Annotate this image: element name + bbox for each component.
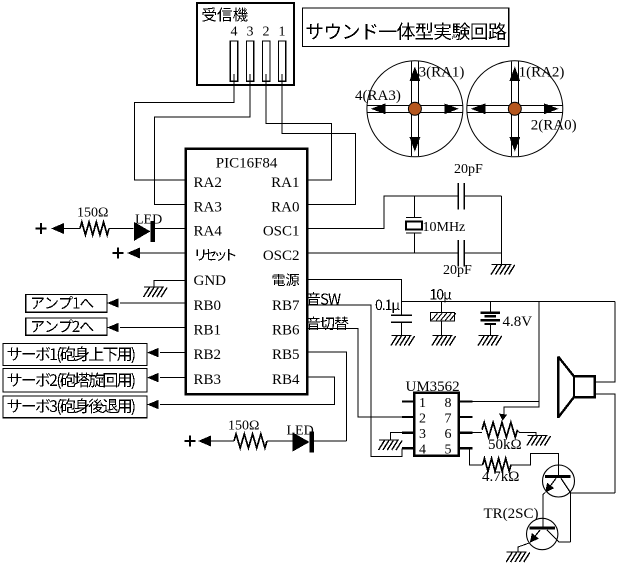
U2 pin 7 stub bbox=[459, 416, 473, 418]
U2 pin 3 stub bbox=[402, 432, 414, 434]
svg-text:3: 3 bbox=[419, 427, 426, 442]
svg-text:4.8V: 4.8V bbox=[503, 314, 533, 330]
svg-text:50kΩ: 50kΩ bbox=[488, 437, 522, 453]
power rail wire bbox=[402, 300, 615, 302]
ground battery bbox=[478, 336, 502, 346]
joystick left stick center knob bbox=[408, 102, 421, 115]
ground C4 bbox=[432, 336, 456, 346]
wire pot to ground bbox=[518, 431, 537, 435]
title text サウンド一体型実験回路 bbox=[306, 23, 506, 41]
joystick right stick arrow down bbox=[509, 137, 520, 152]
battery BT1 4.8V bbox=[489, 301, 491, 335]
joystick right stick cross channel bbox=[467, 61, 563, 156]
wire Q2 emitter to ground bbox=[518, 543, 530, 552]
wire U2 pin3 to ground bbox=[390, 433, 402, 440]
box サーボ2 bbox=[3, 368, 147, 392]
title box bbox=[302, 8, 508, 46]
arrow to + supply bbox=[127, 248, 140, 259]
potentiometer VR1 50k bbox=[472, 432, 482, 434]
wire RB3 to サーボ2 bbox=[160, 377, 186, 379]
wire speaker - to collectors bbox=[595, 394, 615, 493]
arrow into サーボ2 bbox=[147, 373, 159, 383]
wire RB2 to サーボ1 bbox=[160, 352, 186, 354]
wire RB0 to アンプ1 bbox=[120, 302, 186, 304]
svg-text:RA0: RA0 bbox=[271, 200, 299, 216]
svg-text:10MHz: 10MHz bbox=[423, 220, 466, 235]
ground Q2 emitter bbox=[506, 552, 530, 562]
label 音SW bbox=[307, 292, 341, 306]
joystick right stick arrow up bbox=[509, 67, 520, 82]
wire caps to ground bbox=[501, 196, 503, 265]
wire U2 pin5 to R3 bbox=[470, 448, 483, 465]
svg-text:3: 3 bbox=[247, 25, 254, 40]
arrow to + supply bbox=[51, 223, 64, 234]
svg-text:LED: LED bbox=[287, 424, 314, 439]
svg-text:3(RA1): 3(RA1) bbox=[419, 65, 465, 81]
ground oscillator bbox=[491, 265, 515, 275]
receiver label 受信機 bbox=[202, 7, 247, 21]
svg-text:RA4: RA4 bbox=[194, 224, 223, 240]
ground U2 pin3 bbox=[379, 440, 403, 450]
ground VR1 bbox=[527, 436, 551, 446]
box アンプ1へ bbox=[26, 295, 107, 313]
arrow into サーボ1 bbox=[147, 348, 159, 358]
wire receiver pin1 to PIC RA0 bbox=[282, 74, 356, 205]
wire Q1 emitter to Q2 base bbox=[543, 493, 545, 527]
svg-text:2(RA0): 2(RA0) bbox=[531, 118, 577, 134]
svg-text:1: 1 bbox=[419, 396, 426, 411]
svg-text:6: 6 bbox=[445, 427, 452, 442]
svg-text:RA2: RA2 bbox=[194, 175, 222, 191]
svg-text:OSC2: OSC2 bbox=[263, 248, 300, 264]
label サーボ2(砲塔旋回用) bbox=[8, 373, 135, 390]
svg-text:4: 4 bbox=[419, 443, 426, 458]
svg-text:150Ω: 150Ω bbox=[228, 419, 259, 434]
wire bbox=[64, 228, 80, 230]
node + supply for LED D1 bbox=[36, 223, 47, 234]
resistor R2 150ohm bbox=[234, 434, 267, 448]
wire bbox=[109, 228, 133, 230]
joystick right stick arrow left bbox=[471, 103, 486, 114]
svg-text:TR(2SC): TR(2SC) bbox=[484, 506, 539, 522]
arrow to + supply bbox=[198, 436, 211, 447]
capacitor C1 20pF top bbox=[458, 183, 464, 210]
label 10μ bbox=[431, 289, 452, 302]
box アンプ2へ bbox=[26, 318, 107, 335]
wire RB7 to U2 pin4 bbox=[307, 305, 402, 457]
U2 pin 5 stub bbox=[459, 447, 473, 449]
label サーボ3(砲身後退用) bbox=[8, 399, 135, 416]
svg-text:4: 4 bbox=[231, 25, 238, 40]
wire bbox=[211, 440, 234, 442]
LED D1 bbox=[134, 222, 150, 241]
arrow into アンプ1 bbox=[107, 298, 119, 308]
label 0.1μ bbox=[376, 300, 400, 313]
wire OSC1 bbox=[307, 196, 501, 229]
transistor Q1 (2SC) bbox=[543, 465, 575, 497]
resistor R3 4.7k bbox=[483, 458, 511, 471]
wire U2 pin8 and pot wiper to rail bbox=[472, 301, 539, 414]
wire 電源 pin to rail bbox=[307, 280, 401, 316]
svg-text:8: 8 bbox=[445, 396, 452, 411]
svg-text:RB1: RB1 bbox=[194, 323, 222, 339]
node + supply for reset bbox=[113, 248, 124, 259]
U2 pin 1 stub bbox=[402, 400, 414, 402]
joystick left stick cross channel bbox=[367, 61, 463, 156]
pot wiper arrow bbox=[499, 414, 507, 421]
label アンプ2へ bbox=[32, 319, 94, 332]
IC U1 PIC16F84 box bbox=[186, 149, 308, 395]
node + supply for LED D2 bbox=[185, 436, 196, 447]
wire GND pin to ground bbox=[154, 281, 186, 288]
box サーボ1 bbox=[3, 344, 147, 366]
IC U2 UM3562 box bbox=[414, 393, 458, 456]
ground C3 bbox=[391, 336, 415, 346]
svg-text:LED: LED bbox=[135, 213, 162, 228]
joystick left stick arrow up bbox=[410, 67, 421, 82]
joystick right stick arrow right bbox=[544, 103, 559, 114]
svg-text:RB6: RB6 bbox=[272, 323, 300, 339]
svg-text:7: 7 bbox=[445, 411, 452, 426]
wire reset to + bbox=[140, 252, 186, 254]
wire Q1 collector bus to speaker bbox=[571, 493, 615, 542]
resistor R1 150ohm bbox=[80, 222, 109, 235]
receiver slot 1 bbox=[278, 41, 285, 81]
wire RB1 to アンプ2 bbox=[120, 327, 186, 329]
wire LED to RA4 bbox=[153, 228, 186, 230]
receiver box 受信機 bbox=[197, 3, 294, 85]
svg-text:150Ω: 150Ω bbox=[77, 206, 108, 221]
U2 pin 6 stub bbox=[459, 432, 473, 434]
wire receiver pin3 to PIC RA3 bbox=[155, 74, 251, 205]
svg-text:PIC16F84: PIC16F84 bbox=[216, 156, 278, 172]
wire OSC2 bbox=[307, 252, 501, 254]
svg-text:RB3: RB3 bbox=[194, 372, 222, 388]
wire R3 to Q1 base bbox=[511, 453, 558, 475]
joystick left stick arrow right bbox=[444, 103, 459, 114]
svg-text:GND: GND bbox=[194, 273, 227, 289]
box サーボ3 bbox=[3, 396, 147, 418]
svg-text:UM3562: UM3562 bbox=[406, 379, 460, 395]
speaker SP1 bbox=[574, 376, 595, 397]
svg-text:2: 2 bbox=[419, 411, 426, 426]
label アンプ1へ bbox=[32, 296, 94, 309]
capacitor C4 10uF bbox=[441, 301, 443, 312]
svg-text:4.7kΩ: 4.7kΩ bbox=[482, 469, 519, 485]
arrow into サーボ3 bbox=[147, 400, 159, 410]
svg-text:OSC1: OSC1 bbox=[263, 224, 300, 240]
svg-text:RB5: RB5 bbox=[272, 347, 300, 363]
joystick left stick circle bbox=[367, 61, 463, 157]
receiver slot 3 bbox=[246, 41, 253, 81]
wire rail to speaker + bbox=[595, 301, 615, 381]
svg-text:5: 5 bbox=[445, 443, 452, 458]
U2 pin 8 stub bbox=[459, 400, 473, 402]
svg-text:4(RA3): 4(RA3) bbox=[355, 88, 401, 104]
pin label リセット bbox=[197, 249, 236, 261]
svg-text:20pF: 20pF bbox=[454, 162, 483, 177]
svg-text:RB2: RB2 bbox=[194, 347, 222, 363]
capacitor C2 20pF bottom bbox=[458, 240, 464, 267]
label 音切替 bbox=[307, 316, 349, 330]
joystick right stick circle bbox=[467, 61, 563, 157]
arrow into アンプ2 bbox=[107, 323, 119, 333]
label サーボ1(砲身上下用) bbox=[8, 347, 135, 364]
U2 pin 2 stub bbox=[402, 416, 414, 418]
wire receiver pin4 to PIC RA2 bbox=[135, 74, 234, 180]
receiver slot 4 bbox=[230, 41, 237, 81]
svg-text:20pF: 20pF bbox=[443, 263, 472, 278]
svg-text:RA3: RA3 bbox=[194, 200, 222, 216]
crystal X1 10MHz bbox=[406, 196, 421, 253]
joystick left stick arrow left bbox=[371, 103, 386, 114]
wire receiver pin2 to PIC RA1 bbox=[266, 74, 331, 180]
wire RB6 to U2 pin2 bbox=[307, 328, 402, 417]
svg-text:2: 2 bbox=[263, 25, 270, 40]
svg-text:1(RA2): 1(RA2) bbox=[519, 65, 565, 81]
svg-text:RB0: RB0 bbox=[194, 298, 222, 314]
joystick left stick arrow down bbox=[410, 137, 421, 152]
wire RB4 to サーボ3 bbox=[160, 377, 335, 405]
receiver slot 2 bbox=[263, 41, 270, 81]
joystick right stick center knob bbox=[508, 102, 521, 115]
svg-text:1: 1 bbox=[279, 25, 286, 40]
wire RB5 to LED D2 bbox=[307, 352, 346, 441]
ground GND pin bbox=[144, 287, 168, 297]
pin label 電源 bbox=[273, 273, 300, 286]
svg-text:RB4: RB4 bbox=[272, 372, 300, 388]
transistor Q2 (2SC) bbox=[527, 518, 558, 549]
wire LED D2 to RB5 bbox=[313, 440, 347, 442]
U2 pin 4 stub bbox=[402, 447, 414, 449]
svg-text:RA1: RA1 bbox=[271, 175, 299, 191]
capacitor C3 0.1uF bbox=[391, 315, 412, 335]
wire bbox=[267, 440, 293, 442]
svg-text:RB7: RB7 bbox=[272, 298, 300, 314]
LED D2 bbox=[293, 433, 310, 452]
